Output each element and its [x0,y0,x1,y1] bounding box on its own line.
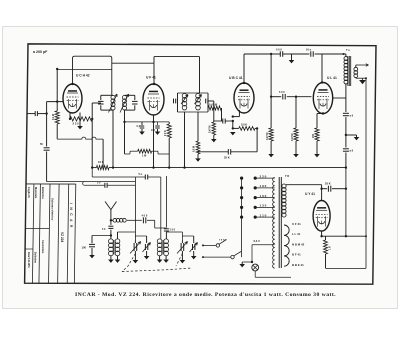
svg-text:2 5 0: 2 5 0 [170,229,176,232]
svg-text:0,47 M: 0,47 M [209,103,217,107]
svg-text:2 2 0: 2 2 0 [260,174,267,178]
svg-text:1 1 0: 1 1 0 [260,213,267,217]
svg-text:1 3 5: 1 3 5 [260,204,267,208]
svg-text:10 n: 10 n [306,48,312,52]
svg-text:INCAR - Mod. VZ 224. Ricevit: INCAR - Mod. VZ 224. Ricevitore a onde m… [75,292,336,298]
svg-text:U F 41: U F 41 [292,222,301,226]
svg-text:1 6 0: 1 6 0 [260,194,267,198]
svg-text:a 9: a 9 [350,114,354,118]
svg-text:L L 41: L L 41 [292,232,301,236]
svg-text:0,47 M: 0,47 M [291,134,294,141]
svg-text:2 2 K: 2 2 K [164,130,167,136]
svg-text:0,47 M: 0,47 M [209,126,212,133]
svg-text:U B C 41: U B C 41 [229,76,243,80]
svg-text:VZ 224: VZ 224 [60,232,64,243]
svg-text:0,27 M: 0,27 M [266,133,269,140]
svg-text:0,1: 0,1 [137,125,141,128]
svg-text:5 0 0: 5 0 0 [279,91,285,94]
svg-text:Data 5.11.1954: Data 5.11.1954 [27,252,30,268]
svg-text:U C H 42: U C H 42 [76,74,90,78]
svg-text:Schema elettrico: Schema elettrico [51,198,55,221]
svg-text:5 0 0: 5 0 0 [276,48,282,52]
svg-text:5 0: 5 0 [102,228,106,231]
svg-text:a 200 pF: a 200 pF [33,50,48,54]
svg-text:U L 41: U L 41 [327,76,337,80]
svg-text:N B M 42: N B M 42 [292,242,305,246]
svg-text:1 9 0: 1 9 0 [260,184,267,188]
svg-text:5 n: 5 n [139,172,143,176]
svg-text:Controllato: Controllato [41,240,44,254]
svg-text:10 M: 10 M [241,124,247,127]
svg-text:r e t e: r e t e [219,238,226,242]
svg-text:I N C A R: I N C A R [69,203,73,228]
svg-text:10 K: 10 K [98,160,104,164]
svg-text:50: 50 [40,143,43,146]
svg-text:Materiale: Materiale [34,187,38,199]
svg-text:Bollettino: Bollettino [41,187,45,199]
svg-text:T u: T u [346,48,350,52]
svg-text:a 9: a 9 [350,149,354,153]
svg-text:Foglio N.: Foglio N. [27,187,31,198]
svg-text:Bollettino: Bollettino [34,252,37,264]
svg-text:100: 100 [151,129,156,132]
svg-text:0,1 M: 0,1 M [52,114,55,120]
svg-text:2 2 5: 2 2 5 [73,122,80,126]
svg-text:T R: T R [285,174,289,178]
svg-text:B B E 41: B B E 41 [292,263,304,267]
svg-text:B F 41: B F 41 [292,253,301,257]
svg-text:0,5 M: 0,5 M [193,146,196,152]
svg-text:150: 150 [312,133,315,138]
svg-text:U Y 41: U Y 41 [305,192,315,196]
svg-text:25 K: 25 K [325,182,331,186]
svg-text:25 K: 25 K [224,156,230,160]
svg-text:4 0 0: 4 0 0 [142,214,148,218]
svg-text:100: 100 [82,246,87,250]
svg-text:U F 41: U F 41 [146,76,156,80]
svg-text:1 M: 1 M [142,154,146,158]
svg-text:6,3 V: 6,3 V [254,239,260,243]
svg-text:1 K: 1 K [329,246,332,250]
